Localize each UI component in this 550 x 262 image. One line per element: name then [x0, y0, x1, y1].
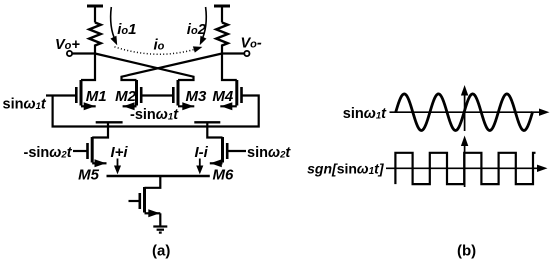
wire sin w1 t wrap-around to M4 gate: [53, 96, 259, 127]
ground: [153, 227, 167, 233]
svg-text:sinω1t: sinω1t: [3, 97, 47, 113]
current arrow io (dotted): [115, 47, 202, 54]
wire bracket to M6 drain: [207, 122, 222, 137]
svg-text:I+i: I+i: [111, 144, 129, 161]
VDD supply rail right: [214, 6, 230, 23]
wire left rail to M1 drain: [81, 45, 95, 81]
transistor M1: [76, 80, 95, 110]
sine waveform: [396, 94, 533, 131]
sine vertical axis: [462, 87, 468, 132]
square waveform sgn: [395, 153, 535, 184]
wire Vo+ to left rail: [72, 52, 95, 54]
svg-text:sinω2t: sinω2t: [247, 145, 291, 161]
VDD supply rail left: [87, 6, 103, 23]
wire Vo- to right rail: [222, 52, 244, 54]
current arrow I-i: [197, 159, 203, 174]
svg-text:M3: M3: [186, 88, 207, 105]
current arrow io1: [111, 7, 117, 44]
svg-text:io1: io1: [117, 21, 136, 38]
svg-text:Vo-: Vo-: [241, 36, 262, 52]
svg-text:io: io: [154, 37, 165, 54]
terminal Vo+: [67, 51, 72, 56]
wire right rail to M4 drain: [222, 45, 237, 81]
wire M7 source to ground: [159, 213, 161, 226]
svg-text:(a): (a): [152, 243, 170, 260]
wire tail rail: [107, 175, 210, 177]
wire cross-couple left node to M3 drain: [95, 54, 194, 81]
wire bracket to M5 drain: [92, 122, 108, 137]
transistor M2: [123, 80, 142, 110]
svg-text:sgn[sinω1t]: sgn[sinω1t]: [307, 161, 385, 178]
transistor M3: [173, 80, 194, 110]
svg-text:sinω1t: sinω1t: [343, 106, 387, 122]
current arrow io2: [200, 7, 206, 44]
transistor M5: [88, 137, 107, 167]
wire cross-couple right node to M2 drain: [122, 54, 223, 81]
resistor RL1 (left load): [89, 23, 101, 46]
svg-text:M2: M2: [115, 88, 136, 105]
wire tail rail to M7 drain: [145, 176, 161, 188]
svg-text:io2: io2: [187, 21, 207, 38]
svg-text:(b): (b): [457, 243, 476, 260]
wire M7 gate stub: [129, 200, 140, 202]
wire M2-M3 gate tie (-sin w1 t): [141, 94, 173, 96]
wire sin w1 t to M1 gate: [46, 94, 76, 96]
wire sinw2t to M6 gate: [227, 150, 246, 152]
wire M1-M2 source bracket: [96, 121, 123, 123]
svg-text:M4: M4: [212, 88, 233, 105]
square time axis: [386, 165, 546, 171]
svg-text:M5: M5: [78, 167, 99, 184]
current arrow I+i: [115, 159, 121, 174]
resistor RL2 (right load): [216, 23, 228, 46]
transistor M6: [210, 137, 227, 167]
svg-text:M6: M6: [213, 167, 234, 184]
svg-text:I-i: I-i: [195, 144, 209, 161]
svg-text:-sinω1t: -sinω1t: [130, 107, 179, 123]
sine time axis: [390, 109, 549, 115]
square vertical axis: [462, 137, 468, 187]
svg-text:M1: M1: [86, 88, 107, 105]
wire M3-M4 source bracket: [194, 121, 220, 123]
terminal Vo-: [244, 51, 249, 56]
transistor M4: [220, 80, 241, 110]
transistor M7 (tail current source): [140, 187, 161, 217]
svg-text:-sinω2t: -sinω2t: [24, 145, 73, 161]
wire -sinw2t to M5 gate: [73, 150, 88, 152]
